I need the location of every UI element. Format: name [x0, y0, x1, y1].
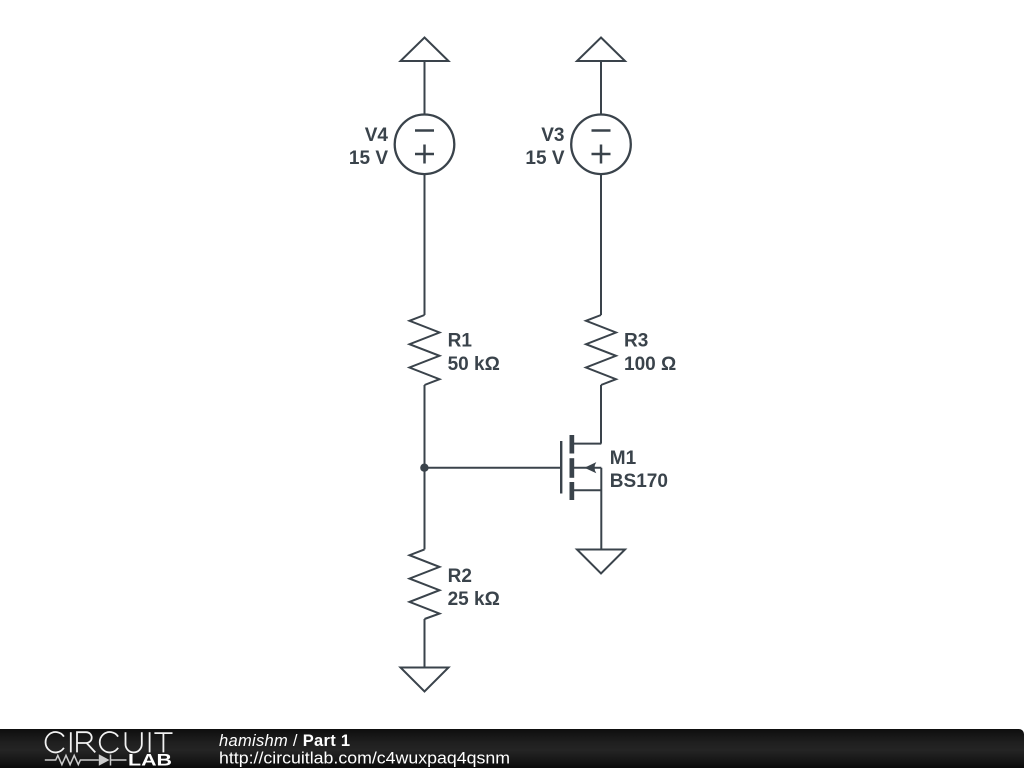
wire source down to ground [600, 468, 602, 550]
ground symbol left [401, 668, 449, 692]
svg-text:hamishm / Part 1: hamishm / Part 1 [219, 732, 350, 750]
resistor R3 [586, 315, 616, 385]
voltage source V3 [571, 115, 631, 175]
transistor M1 channel bars [570, 435, 575, 500]
wire power to V3 [600, 61, 602, 115]
transistor M1 bulk wire with arrow [574, 467, 601, 469]
voltage source V4 [395, 115, 455, 175]
ground symbol right [577, 550, 625, 574]
footer bar [0, 729, 1024, 768]
power symbol V+ right rail [577, 38, 625, 62]
power symbol V+ left rail [401, 38, 449, 62]
node junction dot [420, 464, 428, 472]
wire V4 to R1 [424, 174, 426, 315]
transistor M1 source wire [574, 489, 601, 491]
resistor R2 [410, 549, 440, 619]
transistor M1 gate bar [560, 441, 562, 494]
svg-text:LAB: LAB [128, 751, 172, 768]
wire power to V4 [424, 61, 426, 115]
CircuitLab logo wordmark CIRCUIT [46, 732, 173, 752]
wire drain horizontal [574, 443, 601, 445]
resistor R1 [410, 315, 440, 385]
wire gate net [425, 467, 561, 469]
svg-text:http://circuitlab.com/c4wuxpaq: http://circuitlab.com/c4wuxpaq4qsnm [219, 750, 510, 768]
wire node to R2 [424, 468, 426, 550]
wire V3 to R3 [600, 174, 602, 315]
wire R1 to node [424, 385, 426, 468]
wire R3 to drain [600, 385, 602, 444]
wire R2 to ground [424, 619, 426, 668]
CircuitLab logo resistor-diode squiggle [45, 755, 127, 766]
